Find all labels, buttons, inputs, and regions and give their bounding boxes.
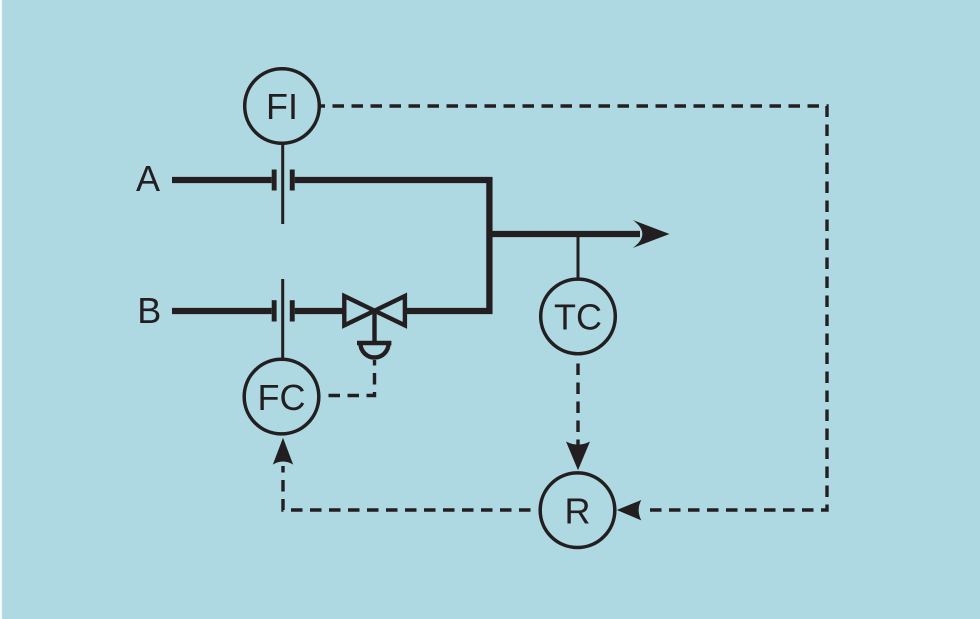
svg-text:FI: FI (266, 86, 298, 127)
svg-text:B: B (137, 290, 161, 331)
svg-text:R: R (565, 490, 591, 531)
svg-text:FC: FC (258, 377, 306, 418)
svg-text:TC: TC (554, 297, 602, 338)
svg-text:A: A (136, 158, 160, 199)
